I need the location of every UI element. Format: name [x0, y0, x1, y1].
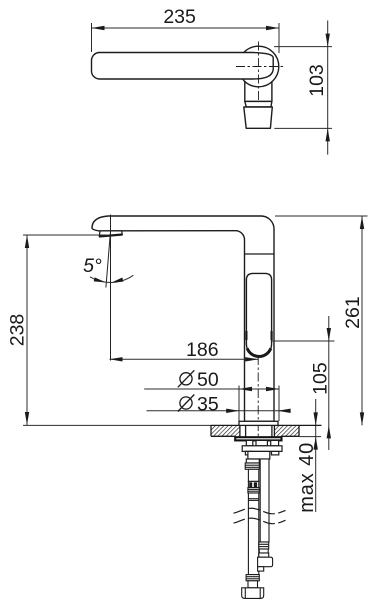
centerline below body — [257, 356, 259, 436]
centerline horizontal (top view) — [236, 66, 284, 68]
svg-text:5°: 5° — [83, 255, 102, 277]
svg-text:35: 35 — [197, 393, 219, 415]
mounting bracket bar — [242, 446, 282, 452]
below break — [242, 542, 273, 598]
handle recess — [246, 273, 271, 356]
swivel body circle (top view) — [238, 46, 279, 87]
spout arm capsule (top view) — [92, 53, 274, 80]
centerline vertical (top view) — [258, 42, 260, 101]
5 degree arc — [90, 275, 133, 282]
mounting studs row — [242, 440, 282, 463]
left hose: coupling — [245, 463, 259, 575]
stud nuts — [245, 451, 252, 455]
spout outlet neck (top view) — [244, 70, 272, 128]
svg-text:238: 238 — [6, 314, 28, 347]
right tube above break — [260, 459, 269, 542]
svg-text:261: 261 — [342, 296, 364, 329]
svg-text:103: 103 — [306, 64, 328, 97]
outlet axis line — [110, 215, 112, 361]
base flange — [239, 421, 278, 425]
shank block — [248, 451, 270, 459]
joint line on body — [245, 253, 275, 255]
svg-text:186: 186 — [186, 339, 219, 361]
5 degree tilted line — [106, 234, 110, 288]
break squiggles — [234, 508, 286, 514]
faucet body outline (side view) — [92, 216, 274, 421]
svg-text:50: 50 — [197, 369, 219, 391]
washer under deck — [235, 437, 281, 440]
svg-text:105: 105 — [309, 362, 331, 395]
svg-text:max 40: max 40 — [296, 442, 318, 513]
svg-text:235: 235 — [163, 6, 196, 28]
outlet aerator (side view) — [99, 231, 122, 237]
